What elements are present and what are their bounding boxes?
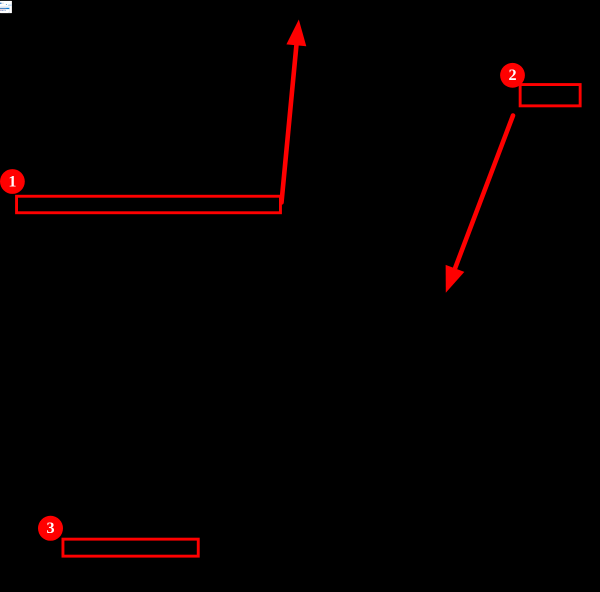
highlight rect 1 bbox=[17, 196, 281, 213]
highlight rect 2 bbox=[520, 85, 580, 106]
arrow 2 (from badge 2 down-left) bbox=[446, 116, 513, 293]
arrow 1 (from highlight rect 1 up to top) bbox=[282, 20, 307, 203]
svg-text:1: 1 bbox=[8, 173, 16, 191]
highlight rect 3 bbox=[63, 539, 198, 556]
step 1 badge bbox=[0, 169, 25, 194]
thumbnail (tiny webpage preview, top-left) bbox=[0, 1, 12, 13]
step 3 badge bbox=[38, 516, 63, 541]
svg-text:3: 3 bbox=[46, 519, 54, 537]
svg-text:2: 2 bbox=[508, 66, 516, 84]
step 2 badge bbox=[500, 63, 525, 88]
